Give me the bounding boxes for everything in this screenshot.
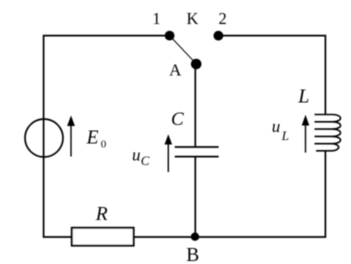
svg-text:1: 1 [152, 9, 160, 28]
svg-text:R: R [95, 204, 108, 225]
svg-text:2: 2 [218, 9, 226, 28]
svg-text:C: C [171, 109, 184, 130]
svg-text:E: E [86, 128, 99, 149]
svg-text:C: C [141, 153, 150, 168]
svg-text:K: K [187, 9, 199, 28]
svg-text:L: L [281, 128, 289, 143]
svg-text:B: B [186, 245, 199, 264]
svg-text:L: L [297, 86, 309, 108]
svg-text:u: u [132, 145, 141, 164]
svg-text:A: A [169, 61, 182, 80]
svg-text:0: 0 [101, 139, 107, 151]
svg-text:u: u [272, 117, 281, 136]
